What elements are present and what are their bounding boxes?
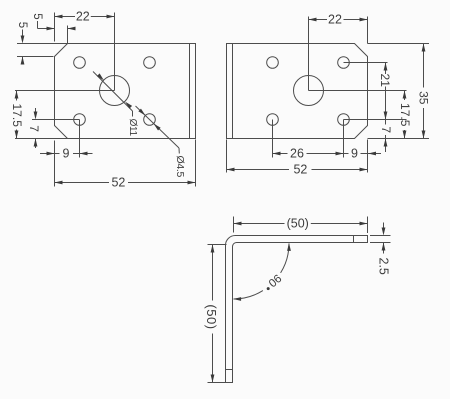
svg-text:35: 35 bbox=[416, 91, 430, 105]
leader diam 11: arrowheads at hole edge bbox=[97, 73, 104, 80]
dim 22 (left view top): dimension line with arrows bbox=[55, 16, 76, 18]
right view: large hole (diam 11) bbox=[294, 76, 324, 106]
dim 52 (left view bottom): extension line below plate right edge bbox=[195, 140, 197, 187]
dim 17.5 (right side): dimension line with arrows bbox=[404, 91, 406, 101]
right view: small hole bottom-right bbox=[338, 114, 350, 126]
svg-text:Ø11: Ø11 bbox=[127, 119, 138, 137]
svg-text:(50): (50) bbox=[204, 304, 219, 329]
leader diam 4.5: vertical tail bbox=[178, 148, 180, 154]
right view: bend line (inner fold edge) bbox=[232, 44, 234, 139]
left view: small hole bottom-left (diam 4.5) bbox=[74, 114, 86, 126]
dim 5 horizontal: extension line at chamfer top vertex bbox=[67, 26, 69, 44]
dim 52 (right view bottom): extension line below plate left edge bbox=[226, 140, 228, 173]
dim 90 degrees: arrowheads at arc ends bbox=[287, 243, 291, 251]
dim 22 (right view top): extension line above plate right edge bbox=[367, 17, 369, 44]
dim 2.5: extension lines from plate end bbox=[370, 235, 391, 237]
dim 52 (right view bottom): extension line below plate right edge bbox=[367, 140, 369, 173]
dim 7 (right side): line segments through text gap bbox=[385, 120, 387, 125]
extension line: bottom-right hole centerline extended right bbox=[344, 119, 407, 121]
dim 5 vertical: upper outside arrow with tail bbox=[22, 30, 24, 37]
dim 52 (left view bottom): dimension line with arrows bbox=[55, 182, 110, 184]
bottom view: L-shaped bent profile outline bbox=[226, 236, 368, 383]
extension line: chamfer bottom vertex level bbox=[17, 56, 54, 58]
left view: small hole top-right (diam 4.5) bbox=[144, 57, 156, 69]
svg-text:5: 5 bbox=[16, 22, 28, 28]
dim 26 (right view bottom): extension line below lower-right hole bbox=[343, 120, 345, 158]
dim 9 (left view bottom): extension line below plate left edge bbox=[54, 141, 56, 187]
leader diam 11: vertical tail bbox=[132, 111, 134, 117]
dim 90 degrees: angle arc (broken at text) bbox=[281, 244, 289, 273]
svg-text:2.5: 2.5 bbox=[377, 258, 391, 275]
dim (50) vertical: dimension line with arrows bbox=[212, 245, 214, 301]
extension line: large hole centerline extended right bbox=[309, 90, 407, 92]
dim 26 (right view bottom): dimension line with arrows bbox=[273, 153, 288, 155]
svg-text:52: 52 bbox=[293, 162, 307, 176]
extension line: plate bottom edge extended left bbox=[15, 138, 68, 140]
left view: large hole (diam 11) bbox=[100, 76, 130, 106]
dim 5 vertical: lower outside arrow bbox=[22, 57, 24, 64]
dim 9 (left view bottom): dimension line, outside arrows and tails bbox=[40, 153, 55, 155]
left view: bend line (inner fold edge) bbox=[189, 44, 191, 139]
right view: small hole top-right bbox=[338, 57, 350, 69]
svg-text:7: 7 bbox=[379, 126, 393, 133]
extension line: plate top edge extended right bbox=[368, 43, 430, 45]
svg-text:90: 90 bbox=[266, 271, 284, 288]
svg-text:Ø4.5: Ø4.5 bbox=[174, 156, 186, 178]
extension line: plate bottom edge extended right bbox=[368, 138, 430, 140]
dim (50) vertical: extension lines bbox=[208, 244, 227, 246]
left view: plate outline with chamfered left corners bbox=[55, 44, 196, 139]
dim 7 (right side): lower outside arrow with tail bbox=[385, 139, 387, 153]
leader diam 4.5: arrowheads at hole edge bbox=[138, 109, 145, 116]
leader diam 4.5: diagonal line through small hole bbox=[136, 106, 180, 148]
svg-text:9: 9 bbox=[63, 146, 70, 160]
svg-text:26: 26 bbox=[290, 146, 304, 160]
svg-text:17.5: 17.5 bbox=[398, 103, 412, 127]
svg-text:5: 5 bbox=[31, 13, 43, 19]
dim 21 (right side): dimension line with arrows bbox=[385, 63, 387, 75]
dim 2.5: outside arrows with tails bbox=[383, 223, 385, 230]
dim 7 (left side): upper outside arrow with tail bbox=[35, 108, 37, 113]
dim 17.5 (left side): dimension line with arrows bbox=[16, 91, 18, 101]
dim 5 horizontal: right outside arrow with tail bbox=[68, 28, 76, 30]
dim 5 horizontal (chamfer width): leader from text and outside arrow bbox=[37, 21, 39, 29]
extension line: plate top edge extended left bbox=[17, 43, 68, 45]
bottom view: hole mark on horizontal leg bbox=[353, 236, 355, 243]
svg-text:52: 52 bbox=[111, 175, 125, 189]
svg-text:21: 21 bbox=[378, 74, 392, 88]
dim 22 (right view top): dimension line with arrows bbox=[309, 19, 328, 21]
dim 52 (right view bottom): dimension line with arrows bbox=[227, 169, 290, 171]
svg-text:9: 9 bbox=[351, 146, 358, 160]
svg-text:22: 22 bbox=[328, 12, 342, 26]
dim (50) horizontal: extension lines bbox=[233, 217, 235, 233]
right view: small hole top-left bbox=[267, 57, 279, 69]
bottom view: hole mark on vertical leg bbox=[226, 369, 233, 371]
dim 35 (far right): dimension line with arrows bbox=[423, 44, 425, 88]
extension line: large hole centerline extended left bbox=[15, 90, 115, 92]
left view: small hole bottom-right (diam 4.5) bbox=[144, 114, 156, 126]
dim 7 (left side): lower outside arrow with tail bbox=[35, 139, 37, 149]
svg-text:(50): (50) bbox=[287, 216, 309, 230]
extension line: lower-left hole centerline extended left bbox=[32, 119, 80, 121]
leader diam 11: diagonal line through large hole bbox=[93, 72, 133, 112]
dim 22 (right view top): extension line down to large hole center bbox=[308, 17, 310, 91]
svg-text:7: 7 bbox=[27, 125, 41, 132]
dim 22 (left view top): extension line at plate left edge bbox=[54, 13, 56, 42]
dim (50) horizontal: dimension line with arrows bbox=[234, 223, 285, 225]
extension line: top-right hole centerline extended right bbox=[344, 62, 388, 64]
right view: plate outline with chamfered right corners bbox=[227, 44, 368, 139]
dim 90 degrees: degree dot bbox=[267, 287, 270, 290]
dim 9 (right view bottom): line segments and outside arrow bbox=[344, 153, 349, 155]
dim 9 (left view bottom): extension line below lower-left hole bbox=[79, 120, 81, 158]
left view: small hole top-left (diam 4.5) bbox=[74, 57, 86, 69]
dim 22 (left view top): extension line down to large hole center bbox=[114, 13, 116, 91]
dim 26 (right view bottom): extension line below lower-left hole bbox=[272, 120, 274, 158]
svg-text:17.5: 17.5 bbox=[10, 104, 24, 128]
svg-text:22: 22 bbox=[76, 9, 90, 23]
right view: small hole bottom-left bbox=[267, 114, 279, 126]
